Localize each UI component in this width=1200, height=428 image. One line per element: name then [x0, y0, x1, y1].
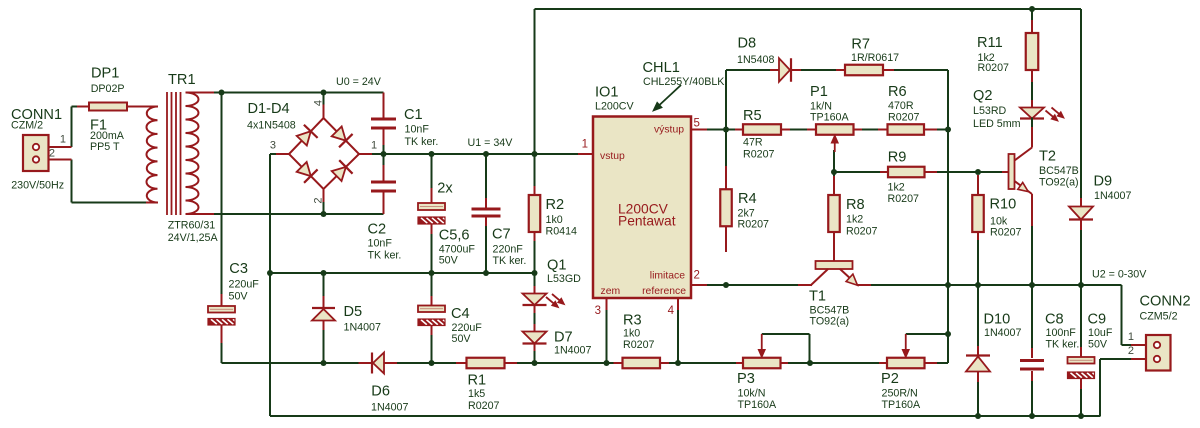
svg-text:ZTR60/31: ZTR60/31 — [168, 220, 216, 232]
wire negative rail y=273 — [270, 272, 535, 274]
svg-text:TO92(a): TO92(a) — [810, 316, 850, 328]
wire IO1 pin5 net — [707, 129, 737, 131]
wire P2 wiper loop — [906, 333, 948, 335]
svg-text:D5: D5 — [344, 304, 363, 320]
svg-text:1: 1 — [1128, 331, 1134, 343]
svg-text:50V: 50V — [439, 255, 459, 267]
transistor T2 symbol — [1009, 154, 1015, 189]
bridge diode D3 (left-bottom edge) — [297, 162, 311, 176]
pin stubs R6 — [878, 129, 889, 131]
svg-text:2: 2 — [1128, 345, 1134, 357]
bridge rectifier D1-D4 diamond — [289, 118, 359, 189]
wire C1-C2 inter link — [383, 141, 385, 169]
resistor R1 body — [467, 358, 505, 369]
connector CONN2 body CZM5/2 — [1146, 335, 1171, 371]
resistor R6 body — [888, 124, 925, 135]
svg-text:230V/50Hz: 230V/50Hz — [11, 180, 64, 192]
svg-text:TK ker.: TK ker. — [368, 250, 402, 262]
transformer TR1 secondary winding — [186, 93, 199, 215]
svg-text:TK ker.: TK ker. — [405, 136, 439, 148]
svg-text:1N4007: 1N4007 — [344, 322, 381, 334]
wire bottom rail — [270, 415, 1101, 417]
svg-text:1N4007: 1N4007 — [554, 345, 591, 357]
svg-text:220nF: 220nF — [493, 244, 524, 256]
svg-text:C1: C1 — [404, 107, 423, 123]
pin stubs R10 — [977, 175, 979, 196]
wire CONN1 pin2 down — [71, 160, 73, 203]
pin stubs D10 — [977, 346, 979, 356]
svg-text:C3: C3 — [229, 261, 248, 277]
svg-text:1N5408: 1N5408 — [737, 54, 774, 66]
potentiometer P1 wiper — [834, 143, 836, 152]
svg-text:D7: D7 — [554, 330, 573, 346]
svg-text:470R: 470R — [888, 100, 914, 112]
svg-text:1k5: 1k5 — [468, 388, 485, 400]
svg-text:1k2: 1k2 — [846, 214, 863, 226]
svg-text:3: 3 — [270, 140, 276, 152]
svg-text:DP02P: DP02P — [91, 83, 125, 95]
wire C5_6 top link — [431, 154, 433, 194]
pin stubs Q2 LED — [1031, 100, 1033, 108]
svg-text:CHL1: CHL1 — [643, 60, 680, 76]
svg-text:R4: R4 — [738, 191, 757, 207]
pin stubs R7 — [836, 69, 846, 71]
capacitor C8 plates — [1020, 359, 1044, 362]
svg-text:1k2: 1k2 — [888, 182, 905, 194]
svg-text:2x: 2x — [437, 181, 453, 197]
pin stubs D8 — [770, 69, 780, 71]
capacitor C9 plates (electrolytic) — [1068, 357, 1095, 364]
svg-text:DP1: DP1 — [91, 66, 119, 82]
wire node4 stub upper — [323, 93, 325, 106]
wire IO1 pin4 down — [677, 309, 679, 363]
LED Q2 symbol — [1020, 108, 1044, 119]
wire C5_6 bottom — [431, 233, 433, 273]
svg-text:Q1: Q1 — [547, 258, 566, 274]
wire y=363 horizontal — [221, 342, 223, 363]
svg-text:4: 4 — [313, 100, 325, 106]
LED Q1 arrows — [546, 297, 554, 303]
svg-text:R5: R5 — [743, 108, 762, 124]
resistor R9 body — [888, 167, 925, 178]
svg-text:CZM/2: CZM/2 — [11, 120, 43, 132]
capacitor C7 plates — [472, 208, 501, 211]
potentiometer P3 body — [743, 358, 781, 369]
potentiometer P3 wiper — [761, 334, 763, 350]
svg-text:4x1N5408: 4x1N5408 — [247, 120, 296, 132]
wire R5-P1 link — [789, 129, 816, 131]
svg-text:220uF: 220uF — [229, 279, 260, 291]
svg-text:R6: R6 — [888, 84, 907, 100]
pin stubs C9 — [1080, 347, 1082, 358]
pin stubs bridge — [323, 105, 325, 119]
svg-text:P1: P1 — [810, 84, 828, 100]
svg-text:5: 5 — [694, 118, 700, 130]
wire R11 bottom link — [1031, 70, 1033, 101]
capacitor C4 plates (electrolytic) — [418, 306, 445, 313]
resistor R5 body — [743, 124, 781, 135]
wire limitace rail y=285 — [707, 284, 798, 286]
wire R11 top link — [1031, 9, 1033, 21]
svg-text:50V: 50V — [452, 333, 472, 345]
svg-text:TO92(a): TO92(a) — [1039, 177, 1079, 189]
wire U1=34V rail y=154 — [371, 153, 578, 155]
pin stub transformer secondary top — [186, 92, 215, 94]
svg-text:1: 1 — [371, 140, 377, 152]
bridge diode D2 (top-right edge) — [332, 126, 346, 140]
capacitor C1 plates — [371, 118, 396, 121]
wire D10 column — [977, 285, 979, 347]
resistor R11 body — [1026, 33, 1039, 70]
svg-text:R0207: R0207 — [888, 193, 920, 205]
wire AC bottom rail y=214 — [213, 213, 384, 215]
svg-text:T1: T1 — [809, 289, 826, 305]
svg-text:TR1: TR1 — [168, 72, 196, 88]
pin stubs P3 — [736, 362, 744, 364]
pin stubs C5_6 — [431, 188, 433, 204]
svg-text:TP160A: TP160A — [882, 399, 921, 411]
wire Q1-D7 link — [534, 312, 536, 325]
LED Q1 symbol — [523, 294, 547, 306]
svg-text:T2: T2 — [1039, 149, 1056, 165]
svg-text:U2 = 0-30V: U2 = 0-30V — [1092, 269, 1147, 281]
svg-text:1N4007: 1N4007 — [371, 402, 408, 414]
potentiometer P1 body — [816, 124, 854, 135]
wire T2 emitter down — [1031, 225, 1033, 285]
pin stubs T2 base — [1002, 171, 1009, 173]
svg-text:D8: D8 — [738, 36, 757, 52]
svg-text:100nF: 100nF — [1046, 327, 1077, 339]
pin stub transformer primary bottom — [146, 202, 158, 204]
heatsink CHL1 arrow — [660, 85, 681, 105]
svg-text:D1-D4: D1-D4 — [248, 101, 290, 117]
svg-text:R0207: R0207 — [738, 219, 770, 231]
svg-text:LED 5mm: LED 5mm — [973, 118, 1021, 130]
pin stubs R5 — [735, 129, 744, 131]
pin stubs C1 — [383, 93, 385, 118]
svg-text:R0207: R0207 — [888, 112, 920, 124]
svg-text:R0207: R0207 — [978, 62, 1010, 74]
resistor R7 body — [845, 65, 883, 76]
wire vertical x=534.5 top — [534, 9, 536, 154]
wire D7 to y=363 — [534, 350, 536, 363]
wire CONN1 pin1 up — [71, 107, 73, 148]
pin stubs IO1 — [578, 153, 593, 155]
svg-text:2: 2 — [49, 148, 55, 160]
pin stubs C7 — [485, 198, 487, 209]
svg-text:C8: C8 — [1045, 312, 1064, 328]
pin stubs C2 — [383, 165, 385, 181]
pin stub transformer secondary bottom — [186, 213, 215, 215]
capacitor C3 plates (electrolytic) — [208, 306, 235, 313]
connector CONN1 body CZM/2 — [23, 135, 49, 171]
svg-text:Q2: Q2 — [973, 88, 992, 104]
svg-text:C5,6: C5,6 — [439, 228, 470, 244]
resistor R8 body — [828, 195, 840, 232]
svg-text:1: 1 — [60, 134, 66, 146]
svg-text:24V/1,25A: 24V/1,25A — [168, 232, 219, 244]
svg-text:P2: P2 — [881, 371, 899, 387]
diode D6 symbol — [371, 353, 373, 374]
svg-text:2: 2 — [694, 270, 700, 282]
svg-text:10nF: 10nF — [405, 124, 430, 136]
pin stubs P1 — [807, 129, 817, 131]
diode D5 symbol — [312, 307, 335, 309]
svg-text:L200CV: L200CV — [595, 101, 634, 113]
pin stubs R9 — [880, 171, 889, 173]
wire P3 wiper loop — [762, 333, 810, 335]
svg-text:R8: R8 — [846, 197, 865, 213]
transformer TR1 primary winding — [146, 107, 157, 203]
svg-text:3: 3 — [595, 305, 601, 317]
svg-text:IO1: IO1 — [595, 85, 619, 101]
pin stubs CONN2 — [1131, 344, 1157, 346]
svg-text:TK ker.: TK ker. — [1046, 339, 1080, 351]
svg-text:R0207: R0207 — [743, 149, 775, 161]
capacitor C5,6 plates (electrolytic) — [418, 203, 445, 210]
svg-text:PP5 T: PP5 T — [90, 141, 120, 153]
pin stubs T1 — [798, 284, 812, 286]
wire C3 column vertical — [221, 93, 223, 296]
wire R6 to x=948 — [936, 129, 948, 131]
svg-text:C4: C4 — [451, 306, 470, 322]
svg-text:D9: D9 — [1094, 174, 1113, 190]
svg-text:L53GD: L53GD — [547, 273, 581, 285]
wire R9 net y=172 — [833, 150, 835, 176]
pin stubs C3 — [221, 294, 223, 306]
svg-text:TP160A: TP160A — [738, 399, 777, 411]
wire D9 bottom link — [1080, 229, 1082, 285]
wire R2 top link — [534, 154, 536, 187]
svg-text:2: 2 — [313, 197, 325, 203]
wire node2 stub lower — [323, 202, 325, 214]
svg-text:1N4007: 1N4007 — [1094, 190, 1131, 202]
svg-text:reference: reference — [642, 286, 686, 297]
bridge diode D4 (bottom-right edge) — [332, 167, 346, 181]
wire P1-R6 link — [861, 129, 888, 131]
svg-text:CZM5/2: CZM5/2 — [1140, 311, 1178, 323]
svg-text:R0414: R0414 — [546, 226, 578, 238]
svg-text:1k0: 1k0 — [623, 328, 640, 340]
svg-text:R11: R11 — [977, 35, 1003, 51]
wire R2 bottom to Q1 — [534, 240, 536, 293]
svg-text:50V: 50V — [229, 291, 249, 303]
svg-text:D10: D10 — [984, 312, 1011, 328]
wire x=948 vertical — [947, 70, 949, 363]
transistor T1 symbol — [816, 261, 853, 269]
pin stubs R4 — [725, 166, 727, 190]
LED Q2 arrows — [1046, 111, 1054, 117]
svg-text:R0207: R0207 — [468, 400, 500, 412]
wire D5 column — [323, 273, 325, 298]
wire C4 column — [431, 273, 433, 297]
diode D9 symbol — [1069, 207, 1093, 220]
wire C8 column — [1031, 285, 1033, 349]
svg-text:C2: C2 — [368, 222, 387, 238]
pin stubs CONN1 — [36, 146, 72, 148]
svg-text:R2: R2 — [546, 197, 565, 213]
svg-text:R7: R7 — [851, 37, 870, 53]
wire top rail (U1 feed to R11/D9) — [535, 8, 1082, 10]
svg-text:R3: R3 — [623, 313, 642, 329]
pin stubs D9 — [1080, 198, 1082, 207]
svg-text:10k/N: 10k/N — [738, 388, 766, 400]
svg-text:250R/N: 250R/N — [882, 388, 918, 400]
junction dots — [219, 90, 225, 96]
svg-text:1N4007: 1N4007 — [984, 327, 1021, 339]
svg-text:10nF: 10nF — [368, 238, 393, 250]
svg-text:limitace: limitace — [650, 271, 685, 282]
svg-text:L53RD: L53RD — [973, 105, 1007, 117]
wire vertical x=1081 right column — [1080, 9, 1082, 199]
pin stubs Q1 — [534, 286, 536, 294]
svg-text:U0 = 24V: U0 = 24V — [336, 76, 382, 88]
wire R10 column — [977, 239, 979, 285]
svg-text:10uF: 10uF — [1088, 327, 1113, 339]
diode D8 symbol — [779, 58, 790, 82]
pin stubs fuse F1 row — [77, 106, 90, 108]
svg-text:R1: R1 — [468, 373, 487, 389]
pin stubs D5 — [323, 296, 325, 308]
wire CONN2 pin1 feed — [1121, 285, 1123, 345]
pin stubs P2 — [879, 362, 888, 364]
pin stubs R3 — [614, 362, 624, 364]
svg-text:CHL255Y/40BLK: CHL255Y/40BLK — [643, 76, 725, 88]
pin stubs D6 — [359, 362, 372, 364]
svg-text:R0207: R0207 — [846, 226, 878, 238]
svg-text:R0207: R0207 — [623, 339, 655, 351]
svg-text:CONN2: CONN2 — [1140, 294, 1191, 310]
wire R7 net y=70 — [726, 69, 770, 71]
svg-text:C7: C7 — [492, 227, 511, 243]
potentiometer P2 wiper — [905, 334, 907, 350]
svg-text:zem: zem — [601, 286, 621, 297]
svg-text:BC547B: BC547B — [1039, 165, 1079, 177]
wire node3 to left column — [270, 153, 277, 155]
IC IO1 L200CV body — [593, 117, 691, 299]
svg-text:47R: 47R — [743, 137, 763, 149]
svg-text:TK ker.: TK ker. — [493, 255, 527, 267]
svg-text:4: 4 — [668, 305, 675, 317]
fuse F1 body — [89, 103, 127, 111]
wire CONN2 pin2 feed — [1100, 358, 1131, 360]
svg-text:R0207: R0207 — [990, 227, 1022, 239]
svg-text:výstup: výstup — [654, 125, 684, 136]
svg-text:50V: 50V — [1088, 339, 1108, 351]
resistor R4 body — [720, 189, 732, 226]
diode D10 symbol — [966, 354, 990, 356]
pin stubs R2 — [534, 186, 536, 196]
transformer TR1 core — [166, 92, 168, 215]
svg-text:1: 1 — [582, 139, 588, 151]
pin stubs R8 — [833, 176, 835, 196]
wire x=726 vertical — [725, 70, 727, 130]
svg-text:TP160A: TP160A — [810, 112, 849, 124]
wire C9 column — [1080, 285, 1082, 348]
svg-text:C9: C9 — [1088, 312, 1107, 328]
svg-text:R9: R9 — [888, 150, 907, 166]
resistor R2 body — [529, 195, 541, 232]
svg-text:Pentawat: Pentawat — [618, 214, 676, 229]
bridge diode D1 (left-top edge) — [297, 131, 311, 145]
pin stubs C4 — [431, 296, 433, 306]
pin stubs D7 — [534, 324, 536, 331]
capacitor C2 plates — [371, 181, 396, 184]
svg-text:R10: R10 — [990, 197, 1017, 213]
svg-text:D6: D6 — [371, 384, 390, 400]
wire C7 top link — [485, 154, 487, 199]
svg-text:vstup: vstup — [600, 151, 625, 162]
wire IO1 pin3 down — [606, 309, 608, 363]
resistor R10 body — [972, 195, 984, 232]
svg-text:1k0: 1k0 — [546, 214, 563, 226]
wire C7 bottom — [485, 225, 487, 273]
svg-text:P3: P3 — [737, 371, 755, 387]
pin stubs R11 — [1031, 20, 1033, 34]
svg-text:U1 = 34V: U1 = 34V — [468, 137, 514, 149]
potentiometer P2 body — [887, 358, 925, 369]
wire AC top rail y=92.5 — [213, 92, 384, 94]
diode D7 symbol — [523, 332, 547, 344]
pin stubs C8 — [1031, 348, 1033, 358]
resistor R3 body — [623, 358, 661, 369]
svg-text:1R/R0617: 1R/R0617 — [851, 52, 899, 64]
pin stubs R1 — [456, 362, 467, 364]
